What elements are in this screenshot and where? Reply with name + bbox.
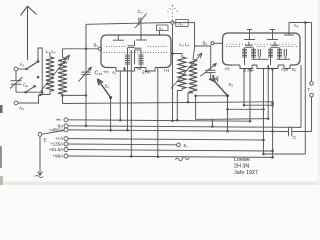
coil L3 [178,57,186,89]
internal cap U2a-2 [257,49,259,57]
ground arrow [39,169,41,176]
pin drop U2 mid [263,69,265,155]
bus minus [68,120,250,121]
pin drop right [157,68,159,157]
wire top [86,23,171,25]
wire S2 row [196,95,228,97]
internal resistor U2a-1 [242,49,247,57]
wire E down [39,136,41,169]
internal cap U2a [248,42,250,46]
anode 3b [272,33,274,40]
wire A3 [18,95,39,103]
wire row 105 [244,104,273,106]
pin drop A1 [119,71,121,120]
wire S1 down [110,97,112,130]
terminal A1 [14,67,18,71]
internal lead U1 [134,50,136,64]
internal capacitor U1a [134,41,136,46]
svg-text:C₃₆: C₃₆ [95,71,103,77]
svg-text:S₂: S₂ [229,82,234,87]
bus +96A [68,156,273,157]
wire riser [38,48,42,95]
node A4 [171,21,174,24]
wire bottom return [264,153,306,155]
svg-text:+H: +H [224,67,229,72]
wire A3 box stub [159,31,161,35]
svg-text:L₁ L₂: L₁ L₂ [46,49,56,54]
svg-text:B₂: B₂ [203,41,208,46]
svg-text:+B: +B [136,66,141,71]
svg-text:A₃: A₃ [159,26,164,31]
svg-text:A₄: A₄ [178,21,183,26]
svg-text:E: E [44,138,47,144]
svg-text:+96A: +96A [53,154,64,159]
grid dotted long [227,44,296,45]
wire row 109 [228,108,264,110]
anode 3a [249,33,251,40]
A4 box label [176,20,188,27]
wire L3 bottom [177,89,182,121]
wire L1 bottom [42,91,50,94]
internal cap U2b [274,42,276,46]
svg-text:Cₐ: Cₐ [23,83,28,88]
variometer arrow [41,55,70,91]
terminal T lower [310,93,314,97]
svg-text:A₁: A₁ [20,62,25,67]
anode 1 [117,35,119,40]
wire long bus A3 [63,102,273,104]
pin drop U2 grid1 [243,69,245,106]
wire L4 bottom [188,93,193,102]
svg-text:S₁: S₁ [105,84,110,89]
grid 1 dotted [106,46,125,47]
terminal T upper [311,23,313,82]
filament dotted [103,52,167,53]
internal resistor R2 [138,55,143,64]
internal capacitor U1b [135,47,142,49]
antenna [27,6,29,60]
svg-text:3 NF: 3 NF [243,68,254,74]
wire fil right riser [300,65,302,127]
svg-text:+H: +H [164,68,169,73]
variometer arrow 2 [171,53,202,89]
bus +4RSA [68,130,273,132]
pin drop U2 fil1 [249,69,251,122]
filament drop 1 [127,71,129,130]
pin drop U2 b [267,69,269,119]
svg-text:++A: ++A [55,136,63,141]
switch S2 [215,82,228,96]
bus ++A [68,139,264,140]
capacitor C35 variable [205,69,215,71]
wire Ca row [16,91,42,93]
svg-text:E₁: E₁ [184,143,189,148]
svg-text:+91.5A: +91.5A [49,147,63,152]
svg-text:2HF: 2HF [142,70,151,76]
dashed aerial arrow [172,7,174,21]
wire L2 to riser [63,94,87,96]
svg-text:2H 3N: 2H 3N [234,164,249,170]
node B1 [98,47,101,50]
svg-text:A₁: A₁ [112,70,117,75]
wire riser to C35 [195,46,211,70]
capacitor Ca [15,71,17,80]
wire node down [172,24,174,121]
terminal A3 [14,101,18,105]
wire grid1 [63,48,99,50]
switch blade 2 [26,86,35,92]
svg-text:A₃: A₃ [19,106,24,111]
filament drop 2 [130,71,132,156]
svg-text:C: C [293,135,296,140]
coil L4 [189,60,197,93]
grid 2 dotted [147,46,166,47]
wire anode rail right [304,23,306,155]
wire E to +4RSA [42,130,64,134]
scan edge artifacts [0,105,3,113]
svg-text:A₅: A₅ [294,23,299,28]
internal rail U2a [252,58,269,60]
tube U2 3NF envelope [223,33,233,65]
wire A5 rail [289,22,312,24]
A3 box label [157,25,169,31]
internal resistor U2b-2 [277,49,282,57]
wire staircase [196,96,213,127]
internal cap U2b-2 [283,49,285,57]
wire L2 bottom [62,94,64,103]
grid dotted c [280,46,297,47]
terminal E1 [177,143,181,147]
capacitor C4 variable [138,18,140,26]
bus +91.5A [68,150,273,152]
svg-text:B₁: B₁ [94,43,99,48]
terminal E [38,133,42,137]
svg-text:B₂: B₂ [292,67,297,72]
wire riser bottom [85,75,87,126]
pin drop U2 right [272,69,274,158]
svg-text:+H: +H [269,67,274,72]
svg-text:Jahr 1927: Jahr 1927 [234,170,258,176]
capacitor C36 variable [82,71,91,73]
battery terminals [64,118,68,122]
svg-text:A₁B: A₁B [281,67,288,72]
switch S1 [98,79,111,98]
wire C35 to contact [211,73,218,82]
wire riser top [85,24,87,71]
capacitor C output [273,130,288,132]
coil L2 [58,58,67,95]
internal resistor U2a-2 [251,49,256,57]
svg-text:+H: +H [103,70,108,75]
internal rail U2b [277,58,291,60]
internal resistor R1 [125,55,130,64]
coil L1 [46,57,54,91]
switch blade antenna [27,62,39,70]
bus +135A to E1 [68,143,177,146]
svg-text:Loewe: Loewe [234,157,250,163]
anode 3c [288,23,290,36]
grid dotted a [226,46,240,47]
svg-text:C₄: C₄ [138,9,143,14]
grid dotted b [256,46,265,47]
tube U1 2HF envelope [101,35,113,68]
anode 2 [140,26,142,41]
wire [18,68,26,70]
ground squiggle [176,157,190,161]
svg-text:T: T [307,88,310,94]
pin wires U1 [127,64,129,71]
wire S2 down [227,96,229,131]
bus 6A filament [68,126,301,128]
internal resistor U2b-1 [268,49,273,57]
wire row 118.6 [212,118,268,121]
svg-text:+135A: +135A [50,142,63,147]
wire node to L4 [174,23,195,48]
svg-text:L₃ L₄: L₃ L₄ [180,42,190,47]
